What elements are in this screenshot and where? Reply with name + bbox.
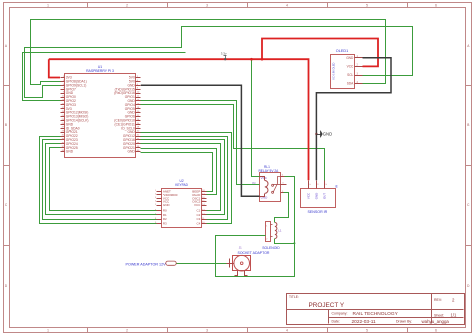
svg-text:Date:: Date: <box>332 320 340 324</box>
wire RPi right pin to keypad col <box>141 133 232 224</box>
svg-text:4: 4 <box>286 4 288 8</box>
svg-text:3: 3 <box>206 329 208 333</box>
svg-text:B: B <box>5 123 7 127</box>
svg-text:5: 5 <box>366 4 368 8</box>
svg-text:SOLENOID: SOLENOID <box>262 246 280 250</box>
svg-text:1/1: 1/1 <box>451 313 457 318</box>
wire RPi right pin to keypad col <box>141 144 221 211</box>
svg-text:2: 2 <box>126 329 128 333</box>
svg-text:OLED1: OLED1 <box>336 49 348 53</box>
svg-text:TITLE:: TITLE: <box>289 295 299 299</box>
svg-text:3: 3 <box>206 4 208 8</box>
svg-text:KEYPAD: KEYPAD <box>175 183 188 187</box>
svg-text:3.3v: 3.3v <box>221 51 227 55</box>
svg-text:GND: GND <box>323 132 332 137</box>
wire power adaptor to socket pin1 <box>177 263 227 265</box>
svg-text:IR: IR <box>335 184 339 188</box>
svg-text:GND: GND <box>127 150 135 154</box>
wire RPi SCL1 to OLED SCL <box>25 27 413 98</box>
wire RPi right pin to keypad col <box>141 140 225 215</box>
svg-text:RAIL TECHNOLOGY: RAIL TECHNOLOGY <box>353 311 399 317</box>
wire RPi SDA1 to OLED SDA <box>31 20 386 85</box>
svg-text:GND: GND <box>163 203 171 207</box>
svg-text:REV:: REV: <box>434 298 442 302</box>
svg-text:2: 2 <box>126 4 128 8</box>
wire RPi left pin to keypad row <box>46 144 157 215</box>
svg-text:5: 5 <box>366 329 368 333</box>
wire RPi right pin to keypad col <box>141 137 228 220</box>
svg-text:C4: C4 <box>196 221 200 225</box>
svg-text:A: A <box>467 44 470 48</box>
junction solenoid-socket <box>293 242 295 244</box>
wire 3.3v to relay VCC <box>252 60 260 177</box>
svg-text:GND: GND <box>66 150 74 154</box>
wire relay pin5 to socket adaptor loop <box>216 177 295 277</box>
svg-text:6: 6 <box>435 329 437 333</box>
relay RL1 <box>252 165 286 201</box>
wire 3.3v to RPi 3V3 <box>49 59 60 77</box>
svg-text:J1: J1 <box>239 245 242 249</box>
svg-text:GND: GND <box>314 193 318 199</box>
svg-text:2: 2 <box>266 238 268 240</box>
wire 3.3v main rail <box>49 59 309 180</box>
wire OLED GND to sensor GND <box>316 58 391 181</box>
wire RPi left pin to keypad row <box>43 140 157 220</box>
svg-text:VCC: VCC <box>194 203 201 207</box>
svg-text:SENSOR IR: SENSOR IR <box>308 210 328 214</box>
svg-text:C: C <box>5 203 8 207</box>
wire RPi GND to relay GND <box>141 85 260 196</box>
svg-text:D: D <box>5 284 8 288</box>
junction 3.3v/OLED branch <box>261 58 264 61</box>
wire relay pin2 to solenoid coil <box>275 193 289 223</box>
svg-text:RELAY 5V 2A: RELAY 5V 2A <box>259 169 280 173</box>
svg-text:B: B <box>467 123 469 127</box>
svg-text:VCC: VCC <box>307 193 311 199</box>
OLED1 display <box>331 49 363 89</box>
junction 3.3v flag <box>224 58 226 60</box>
net flag 3.3v <box>221 51 227 59</box>
inductor L1 <box>275 223 282 239</box>
svg-text:PROJECT Y: PROJECT Y <box>309 302 345 309</box>
solenoid connector <box>266 222 273 242</box>
svg-text:6: 6 <box>435 4 437 8</box>
socket adaptor J1 <box>227 245 270 275</box>
svg-text:RASPBERRY PI 3: RASPBERRY PI 3 <box>86 69 114 73</box>
svg-text:1: 1 <box>266 225 268 227</box>
svg-text:GND: GND <box>346 56 354 60</box>
wire RPi GPIO to relay IN <box>141 101 260 185</box>
svg-text:POWER ADAPTOR 12V: POWER ADAPTOR 12V <box>126 263 167 267</box>
wire solenoid L1 bottom to socket net <box>275 239 295 244</box>
svg-text:OUT: OUT <box>323 193 327 199</box>
wire RPi left pin to keypad row <box>50 148 157 211</box>
svg-text:3: 3 <box>357 72 359 75</box>
net flag POWER ADAPTOR 12V <box>126 261 177 267</box>
wire RPi left pin to keypad row <box>40 137 157 224</box>
keypad U2 <box>155 179 206 227</box>
ground flag GND <box>315 131 332 138</box>
sensor IR <box>301 181 339 214</box>
title block <box>287 294 465 325</box>
raspberry pi U1 <box>61 65 141 158</box>
svg-text:2022-03-11: 2022-03-11 <box>352 319 377 325</box>
svg-text:D: D <box>467 284 470 288</box>
svg-text:Sheet:: Sheet: <box>434 313 444 317</box>
svg-text:SOCKET ADAPTOR: SOCKET ADAPTOR <box>238 251 270 255</box>
junction 3.3v/relay branch <box>250 58 253 61</box>
wire RPi GPIO2 stub route <box>23 53 186 101</box>
svg-text:1: 1 <box>47 329 49 333</box>
wire RPi right pin to keypad col <box>141 149 217 195</box>
svg-text:1: 1 <box>47 4 49 8</box>
svg-text:SCL: SCL <box>347 73 353 77</box>
wire RPi GPIO to sensor OUT <box>141 105 325 181</box>
svg-text:A: A <box>5 44 8 48</box>
svg-text:4: 4 <box>286 329 288 333</box>
svg-text:2: 2 <box>452 298 455 303</box>
svg-text:C: C <box>467 203 470 207</box>
svg-text:Company:: Company: <box>332 311 348 315</box>
svg-text:IIC 0.96 OLED: IIC 0.96 OLED <box>332 62 336 79</box>
wire RPi right pin to keypad col <box>141 153 213 192</box>
svg-text:L1: L1 <box>278 229 282 233</box>
svg-text:wahyu_angga: wahyu_angga <box>422 319 450 324</box>
svg-text:Drawn By:: Drawn By: <box>396 320 412 324</box>
svg-text:VCC: VCC <box>347 65 354 69</box>
svg-text:SDA: SDA <box>347 82 354 86</box>
svg-text:R3: R3 <box>163 221 167 225</box>
wire 3.3v branch to OLED VCC <box>262 39 378 67</box>
